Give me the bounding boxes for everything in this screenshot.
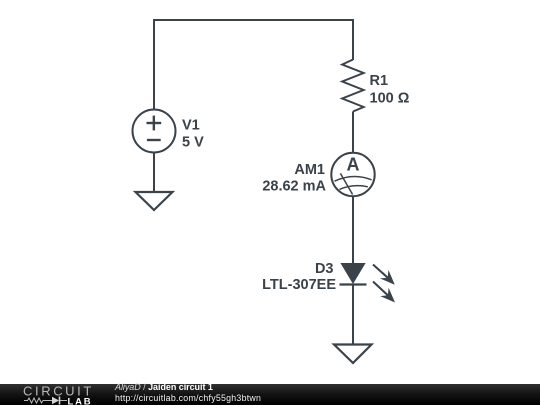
logo resistor squiggle <box>24 398 52 403</box>
svg-text:28.62 mA: 28.62 mA <box>262 178 326 194</box>
voltage source V1 <box>133 110 176 153</box>
LED arrow 1 <box>373 265 388 278</box>
V1 minus sign <box>147 139 161 141</box>
D3 cathode bar <box>340 283 367 285</box>
ground (D3) <box>334 345 372 364</box>
CircuitLab logo <box>22 385 94 405</box>
svg-text:LAB: LAB <box>68 396 93 405</box>
svg-text:A: A <box>347 154 360 174</box>
ground (V1) <box>136 192 173 210</box>
footer text <box>114 383 116 385</box>
svg-text:AM1: AM1 <box>294 162 325 178</box>
svg-text:V1: V1 <box>182 117 200 133</box>
logo diode <box>52 397 59 404</box>
svg-text:5 V: 5 V <box>182 135 204 151</box>
svg-text:100 Ω: 100 Ω <box>370 90 410 106</box>
wire D3 to ground <box>352 285 354 345</box>
wire V1 bottom to ground <box>153 152 155 192</box>
wire right vertical to R1 <box>352 19 354 60</box>
svg-text:LTL-307EE: LTL-307EE <box>262 277 336 293</box>
wire AM1 to D3 <box>352 196 354 264</box>
V1 body circle <box>133 110 176 153</box>
footer bar <box>0 384 540 405</box>
AM1 scale arc outer <box>335 177 372 182</box>
LED arrow 2 <box>373 282 388 296</box>
resistor R1 <box>342 60 363 112</box>
wire left vertical to V1 <box>153 19 155 110</box>
V1 plus sign <box>147 122 162 124</box>
AM1 needle <box>340 173 352 194</box>
D3 anode triangle <box>340 263 365 284</box>
wire R1 to AM1 <box>352 112 354 154</box>
ammeter AM1 <box>331 153 374 196</box>
AM1 scale arc inner <box>340 186 368 190</box>
svg-text:R1: R1 <box>370 73 389 89</box>
LED D3 <box>340 263 396 303</box>
AM1 body circle <box>331 153 374 196</box>
svg-text:D3: D3 <box>315 261 334 277</box>
wire top horizontal <box>154 19 353 21</box>
